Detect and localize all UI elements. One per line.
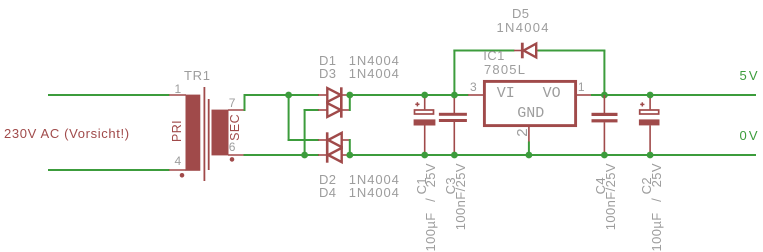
- wire D5 branch left riser: [453, 50, 455, 96]
- label PRI: [171, 120, 183, 142]
- value 1N4004 D3: [349, 67, 400, 80]
- label C2: [641, 177, 653, 194]
- transformer TR1 secondary winding: [212, 110, 229, 156]
- transformer TR1 secondary phase dot: [230, 157, 235, 162]
- wire D5 branch left horizontal: [453, 50, 514, 52]
- diode D2 1N4004: [318, 133, 350, 147]
- node junction C1 bottom: [421, 152, 428, 159]
- node junction rectifier minus: [346, 152, 353, 159]
- wire secondary pin6 to D4: [244, 154, 320, 156]
- pin number 7 TR1: [229, 97, 236, 109]
- wire IC GND to 0V: [528, 142, 530, 157]
- label C3: [445, 177, 457, 194]
- label C1: [416, 177, 428, 194]
- capacitor C4 100nF/25V: [592, 95, 618, 155]
- wire rectified rail to IC input: [350, 94, 469, 96]
- node junction C4 bottom: [601, 152, 608, 159]
- wire 5V output rail: [591, 94, 756, 96]
- diode D5 1N4004: [514, 43, 545, 59]
- net label 5V: [740, 69, 760, 82]
- label SEC: [229, 114, 241, 141]
- node junction secondary bottom: [301, 152, 308, 159]
- wire 230V AC top: [48, 94, 170, 96]
- pin number 2 IC1: [517, 128, 529, 137]
- label D3: [319, 67, 336, 80]
- transformer TR1 pin 4: [169, 169, 186, 171]
- transformer TR1 primary winding: [186, 95, 201, 171]
- node junction rectifier plus: [346, 92, 353, 99]
- label D5: [512, 7, 529, 20]
- label IC1: [483, 49, 504, 62]
- node junction C2 top: [647, 92, 654, 99]
- node junction C3 top: [451, 92, 458, 99]
- pin number 3 IC1: [470, 81, 477, 93]
- wire to D3 anode: [304, 109, 319, 111]
- value C1 100uF / 25V: [425, 163, 437, 252]
- value 7805L: [484, 63, 526, 76]
- wire D5 branch right riser: [603, 51, 605, 96]
- node junction C2 bottom: [647, 152, 654, 159]
- op-amp IC1 pin 1 VO: [577, 94, 592, 96]
- transformer TR1 pin 6: [228, 154, 245, 156]
- transformer TR1 core line right: [208, 99, 210, 170]
- wire D2 D4 anode join: [349, 139, 351, 156]
- wire secondary top to D1: [244, 94, 320, 96]
- op-amp IC1 pin 2 GND: [528, 127, 530, 142]
- pin name VO: [543, 87, 561, 100]
- wire secondary pin7 riser: [244, 94, 246, 111]
- capacitor C3 100nF/25V: [439, 95, 467, 155]
- node junction C3 bottom: [451, 152, 458, 159]
- wire D1 D3 cathode join: [349, 94, 351, 111]
- diode D3 1N4004: [318, 87, 350, 117]
- transformer TR1 primary phase dot: [180, 173, 185, 178]
- diode D1 1N4004: [318, 88, 350, 102]
- wire D5 branch right horizontal: [538, 50, 606, 52]
- wire to D2 cathode: [288, 139, 319, 141]
- transformer TR1 pin 7: [228, 109, 245, 111]
- pin number 4 TR1: [175, 155, 182, 167]
- value 1N4004 D1: [349, 54, 400, 67]
- value C3 100nF/25V: [455, 163, 467, 230]
- diode D4 1N4004: [318, 132, 350, 162]
- wire branch up to D3: [304, 109, 306, 156]
- wire 0V rail: [350, 154, 756, 156]
- pin number 1 TR1: [175, 83, 182, 95]
- op-amp IC1 7805L body: [484, 81, 575, 125]
- label TR1: [184, 69, 211, 82]
- net label 0V: [740, 129, 760, 142]
- value 1N4004 D4: [349, 186, 400, 199]
- label D2: [319, 173, 336, 186]
- pin number 1 IC1: [578, 81, 585, 93]
- label D1: [319, 54, 336, 67]
- capacitor C1 100uF/25V: [414, 95, 436, 155]
- label D4: [319, 186, 336, 199]
- node junction D5 C4: [601, 92, 608, 99]
- pin name GND: [517, 107, 544, 120]
- value 1N4004 D2: [349, 173, 400, 186]
- wire 230V AC bottom: [48, 169, 170, 171]
- pin number 6 TR1: [229, 141, 236, 153]
- label 230V AC (Vorsicht!): [4, 127, 130, 140]
- value 1N4004 D5: [497, 21, 550, 34]
- value C2 100uF / 25V: [651, 163, 663, 252]
- transformer TR1 pin 1: [169, 94, 186, 96]
- transformer TR1 core line left: [203, 87, 205, 181]
- pin name VI: [497, 87, 515, 100]
- op-amp IC1 pin 3 VI: [468, 94, 483, 96]
- node junction IC GND: [526, 152, 533, 159]
- node junction secondary top: [285, 92, 292, 99]
- label C4: [595, 177, 607, 194]
- node junction C1 top: [421, 92, 428, 99]
- wire branch down to D2: [288, 94, 290, 141]
- capacitor C2 100uF/25V: [639, 95, 660, 155]
- value C4 100nF/25V: [605, 163, 617, 230]
